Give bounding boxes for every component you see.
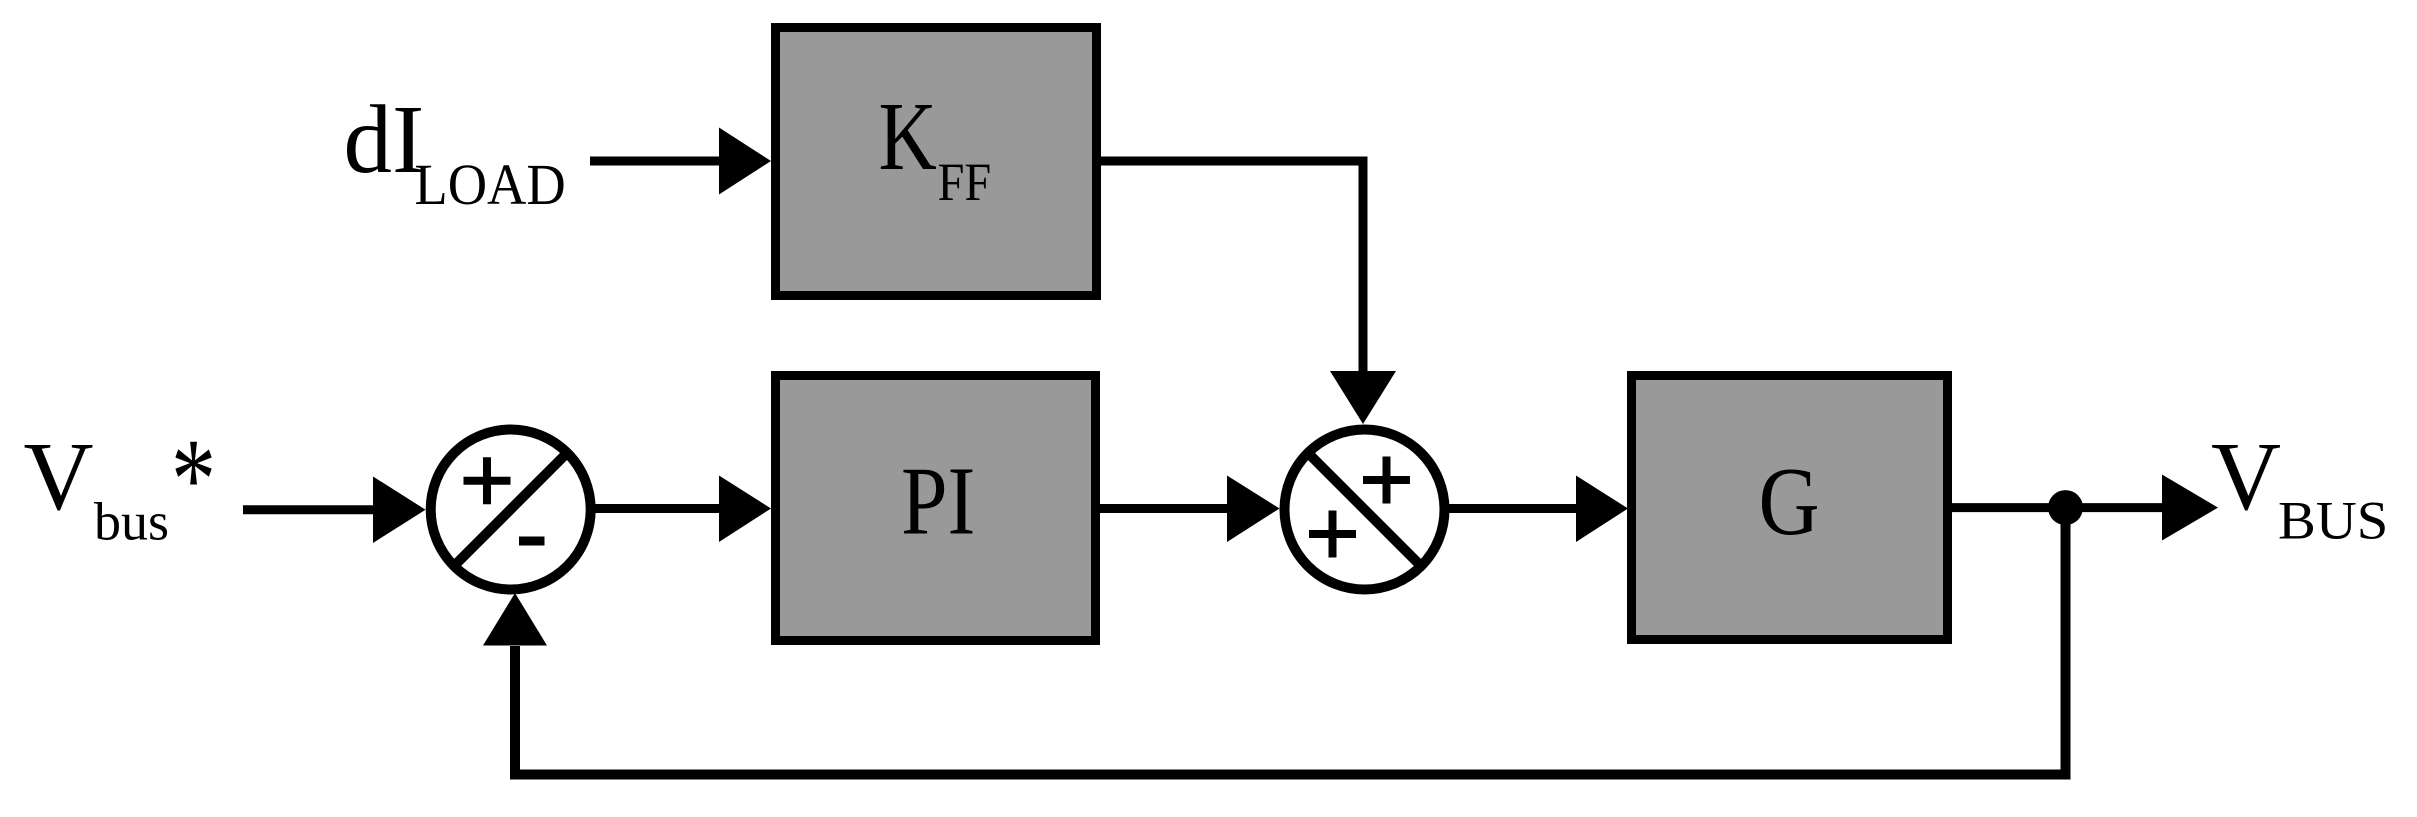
arrowhead into summing junction S2 bbox=[1227, 476, 1280, 543]
svg-text:K: K bbox=[879, 83, 937, 190]
wire feedback path from junction dot to S1 bbox=[515, 507, 2066, 775]
arrowhead into G bbox=[1576, 476, 1628, 543]
block G (plant transfer function) bbox=[1632, 376, 1948, 640]
svg-text:PI: PI bbox=[901, 447, 975, 554]
wire dI_LOAD to K_FF bbox=[590, 157, 721, 166]
svg-text:LOAD: LOAD bbox=[414, 152, 565, 217]
svg-text:G: G bbox=[1759, 448, 1820, 555]
block K_FF (feed-forward gain) bbox=[776, 28, 1097, 296]
svg-text:FF: FF bbox=[938, 152, 992, 212]
arrowhead into PI bbox=[719, 476, 771, 543]
svg-text:BUS: BUS bbox=[2278, 491, 2388, 551]
svg-text:dI: dI bbox=[344, 86, 425, 193]
summing junction S1 (error comparator) bbox=[431, 430, 591, 590]
arrowhead feedback into S1 bottom bbox=[483, 593, 547, 646]
wire V_bus* to summing junction S1 bbox=[243, 505, 375, 514]
arrowhead into summing junction S1 bbox=[373, 477, 426, 544]
wire S2 to G bbox=[1448, 504, 1578, 513]
arrowhead into K_FF bbox=[719, 128, 771, 195]
wire PI to summing junction S2 bbox=[1100, 504, 1229, 513]
wire G output to V_BUS bbox=[1952, 503, 2164, 512]
arrowhead down into summing junction S2 bbox=[1330, 371, 1396, 424]
summing junction S2 (adder) bbox=[1285, 430, 1445, 590]
svg-text:V: V bbox=[24, 423, 94, 530]
svg-text:bus: bus bbox=[94, 492, 169, 552]
block PI (PI controller) bbox=[776, 376, 1096, 641]
svg-text:V: V bbox=[2211, 423, 2281, 530]
junction dot on output node bbox=[2048, 490, 2083, 525]
wire K_FF output to summing junction S2 (corner) bbox=[1101, 161, 1363, 373]
arrowhead to V_BUS label bbox=[2162, 475, 2218, 541]
node V_BUS output label bbox=[2211, 423, 2388, 551]
wire S1 to PI bbox=[593, 504, 721, 513]
svg-text:*: * bbox=[171, 415, 216, 544]
node dI_LOAD input label bbox=[344, 86, 566, 217]
node V_bus* reference label bbox=[24, 415, 217, 552]
